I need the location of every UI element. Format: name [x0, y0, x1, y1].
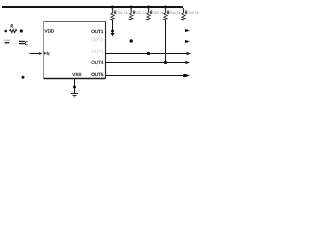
wire RL1 to OUT1 [112, 20, 114, 33]
arrow down OUT1 [110, 33, 114, 36]
node terminal dot R right [20, 29, 23, 32]
battery VBAT plate top [4, 39, 10, 41]
svg-text:OUT1: OUT1 [91, 29, 104, 34]
svg-text:VSS: VSS [72, 72, 81, 77]
wire RL4 vertical [165, 20, 167, 63]
label RL2 value [134, 11, 136, 14]
node junction dot VSS [73, 86, 76, 89]
arrow output 3 [187, 52, 192, 55]
svg-text:203 1k: 203 1k [153, 11, 164, 15]
resistor RL5 [182, 8, 185, 20]
node junction dot OUT2 [130, 39, 133, 42]
svg-text:OUT5: OUT5 [91, 72, 104, 77]
svg-text:VDD: VDD [45, 28, 55, 33]
node terminal dot R left [4, 30, 7, 33]
label RL4 value [168, 11, 170, 14]
ground GND [71, 94, 78, 98]
wire OUT3 row [106, 53, 188, 55]
label RL1 value [115, 11, 117, 14]
capacitor C plate top [19, 40, 25, 42]
svg-text:201 1k: 201 1k [117, 11, 128, 15]
wire VSS pin [74, 79, 76, 94]
arrow output 5 [186, 74, 191, 77]
svg-text:OUT4: OUT4 [91, 60, 104, 65]
pin label IN [44, 52, 47, 55]
label RL3 value [151, 11, 153, 14]
node junction dot OUT4 [164, 61, 167, 64]
node junction dot rail x112 [111, 6, 114, 9]
resistor RL4 [164, 8, 167, 20]
resistor RL2 [130, 8, 133, 20]
svg-text:204 1k: 204 1k [170, 11, 181, 15]
wire VDD top rail [2, 6, 183, 8]
arrow IN [39, 52, 42, 55]
label R [11, 25, 13, 28]
svg-text:202 1k: 202 1k [136, 11, 147, 15]
svg-text:OUT2: OUT2 [91, 37, 104, 42]
node junction dot rail x131 [130, 6, 133, 9]
node junction dot OUT1 [111, 30, 114, 33]
battery VBAT plate bottom [5, 42, 10, 44]
node junction dot OUT5 [183, 74, 186, 77]
wire OUT4 row [106, 62, 187, 64]
node junction dot rail x148 [147, 6, 150, 9]
resistor RL1 [111, 8, 114, 20]
resistor R timing [10, 29, 17, 32]
node dot bottom left [22, 76, 25, 79]
wire IN input [30, 53, 41, 55]
node junction dot OUT3 [147, 52, 150, 55]
svg-text:OUT3: OUT3 [91, 49, 104, 54]
IC U1 box [44, 22, 106, 79]
arrow output 4 [186, 61, 191, 64]
arrow output 1 [185, 29, 190, 32]
label C [25, 42, 28, 45]
arrow output 2 [185, 40, 190, 43]
node junction dot rail x165 [164, 6, 167, 9]
capacitor C plate bottom [19, 43, 25, 45]
svg-text:205 1k: 205 1k [188, 11, 199, 15]
wire OUT5 row [106, 75, 187, 77]
resistor RL3 [147, 8, 150, 20]
label RL5 value [186, 11, 188, 14]
